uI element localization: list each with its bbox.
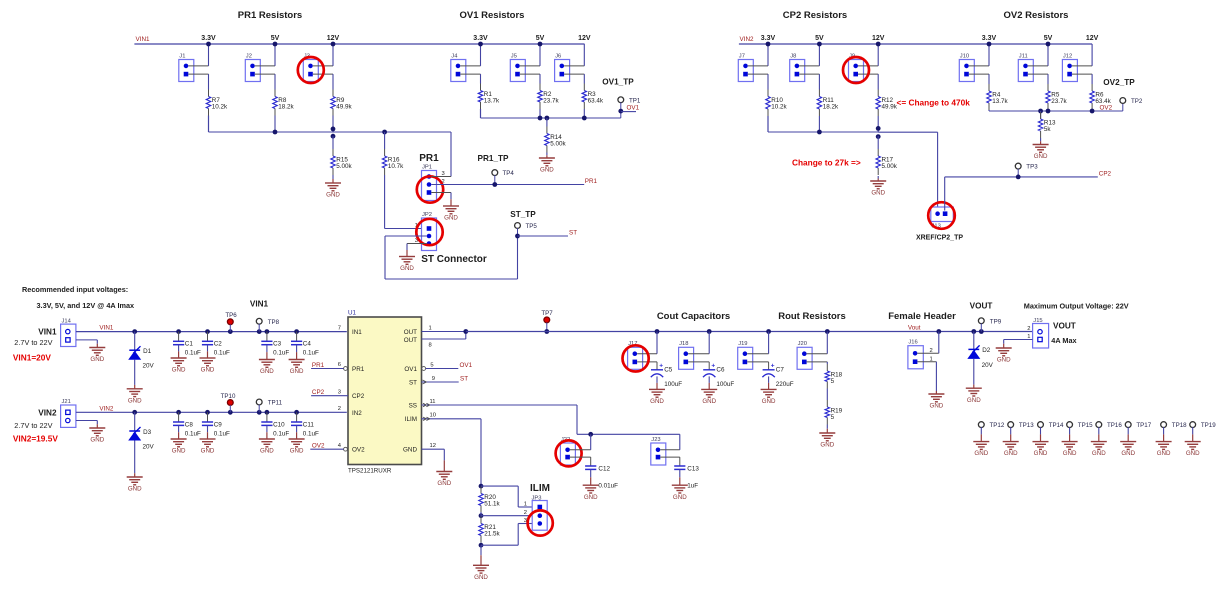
svg-text:PR1: PR1 <box>352 366 365 373</box>
ground below R15 <box>332 175 334 179</box>
svg-text:GND: GND <box>326 192 340 199</box>
wire <box>274 116 276 133</box>
svg-text:GND: GND <box>1034 450 1048 457</box>
svg-text:51.1k: 51.1k <box>484 501 500 508</box>
svg-text:C8: C8 <box>185 421 194 428</box>
svg-text:C1: C1 <box>185 341 194 348</box>
svg-text:21.5k: 21.5k <box>484 531 500 538</box>
ground below TP18 <box>1156 441 1172 443</box>
svg-text:GND: GND <box>90 437 104 444</box>
svg-text:JP2: JP2 <box>422 212 432 218</box>
wire J16 pin1 to ground <box>917 361 936 363</box>
svg-text:3.3V: 3.3V <box>473 35 488 42</box>
wire <box>1028 65 1048 67</box>
svg-text:8: 8 <box>429 343 432 349</box>
svg-text:9: 9 <box>432 376 435 382</box>
svg-text:Change to 27k =>: Change to 27k => <box>792 158 861 168</box>
ground below TP17 <box>1120 441 1136 443</box>
svg-text:OV1: OV1 <box>404 366 417 373</box>
capacitor C3 <box>266 332 268 342</box>
svg-text:TP14: TP14 <box>1049 422 1064 429</box>
svg-text:VIN1: VIN1 <box>38 328 57 337</box>
connector J13 XREF/CP2_TP <box>931 207 954 222</box>
svg-text:GND: GND <box>540 167 554 174</box>
svg-text:OV2: OV2 <box>352 447 365 454</box>
ground below C13 <box>672 484 688 486</box>
wire ST net <box>518 235 569 237</box>
wire <box>1047 110 1049 111</box>
svg-text:5.00k: 5.00k <box>550 141 566 148</box>
svg-text:TP3: TP3 <box>1026 164 1038 171</box>
svg-text:2: 2 <box>524 510 527 516</box>
red highlight circle on J9 <box>843 57 869 83</box>
svg-text:J19: J19 <box>738 341 747 347</box>
wire <box>826 389 828 401</box>
svg-text:J15: J15 <box>1033 318 1042 324</box>
svg-text:TP4: TP4 <box>503 170 515 177</box>
svg-text:J6: J6 <box>555 53 561 59</box>
wire <box>564 65 584 67</box>
capacitor C6 <box>703 369 715 371</box>
capacitor C9 <box>207 412 209 422</box>
test point TP15 <box>1067 422 1073 428</box>
svg-text:PR1 Resistors: PR1 Resistors <box>238 10 302 21</box>
svg-text:SS: SS <box>409 403 417 410</box>
wire <box>748 65 768 67</box>
capacitor C2 <box>207 332 209 342</box>
svg-text:C9: C9 <box>214 421 223 428</box>
svg-text:0.1uF: 0.1uF <box>214 350 230 357</box>
ground below C3 <box>259 359 275 361</box>
VIN2 rail (top) <box>739 43 1092 45</box>
ground at J15 <box>996 347 1012 349</box>
svg-text:J2: J2 <box>246 53 252 59</box>
wire J5 to resistor <box>539 74 541 83</box>
capacitor C4 <box>296 332 298 342</box>
svg-text:TP12: TP12 <box>990 422 1005 429</box>
svg-text:GND: GND <box>930 403 944 410</box>
resistor R19 <box>826 400 828 407</box>
wire to JP3 pin2 <box>481 515 532 517</box>
wire J14 pin2 to ground <box>76 339 97 341</box>
U1 OUT pin wires <box>422 331 466 333</box>
junction dots on VIN1 rail <box>132 329 137 334</box>
svg-text:5: 5 <box>831 378 835 385</box>
resistor R2 <box>539 84 541 91</box>
VIN1 rail (top) <box>134 43 584 45</box>
wire bus to J13 <box>878 131 937 133</box>
wire J13 pin2 to CP2 net <box>944 177 946 211</box>
svg-text:GND: GND <box>437 480 451 487</box>
svg-text:J18: J18 <box>679 341 688 347</box>
svg-text:D1: D1 <box>143 348 152 355</box>
svg-text:100uF: 100uF <box>716 381 734 388</box>
svg-text:10.2k: 10.2k <box>771 104 787 111</box>
svg-text:3.3V: 3.3V <box>201 35 216 42</box>
svg-text:C3: C3 <box>273 341 282 348</box>
svg-text:GND: GND <box>820 442 834 449</box>
svg-text:0.1uF: 0.1uF <box>185 350 201 357</box>
svg-text:GND: GND <box>1121 450 1135 457</box>
svg-text:ST: ST <box>569 230 577 237</box>
svg-text:C7: C7 <box>776 366 785 373</box>
svg-text:0.01uF: 0.01uF <box>598 483 618 490</box>
svg-text:VIN1: VIN1 <box>99 325 113 332</box>
svg-text:GND: GND <box>172 448 186 455</box>
svg-text:C12: C12 <box>598 465 610 472</box>
capacitor C5 <box>651 369 663 371</box>
wire J21 pin2 to ground <box>76 420 97 422</box>
wire J23 pin2 to C13 <box>660 456 680 458</box>
capacitor C7 <box>763 369 775 371</box>
svg-text:CP2: CP2 <box>352 393 365 400</box>
svg-text:J8: J8 <box>790 53 796 59</box>
svg-text:11: 11 <box>430 399 436 405</box>
svg-text:GND: GND <box>90 356 104 363</box>
svg-text:VIN2: VIN2 <box>740 36 754 43</box>
wire J12 to resistor <box>1091 74 1093 84</box>
svg-text:GND: GND <box>1157 450 1171 457</box>
svg-text:GND: GND <box>128 486 142 493</box>
ground below D2 <box>966 387 982 389</box>
wire J22 pin1 <box>570 449 591 451</box>
wire <box>583 109 585 118</box>
svg-text:IN2: IN2 <box>352 410 362 417</box>
svg-text:VIN2=19.5V: VIN2=19.5V <box>13 434 58 444</box>
ground below D1 <box>127 388 143 390</box>
capacitor C13 <box>674 465 685 467</box>
svg-text:TP9: TP9 <box>990 318 1002 325</box>
ground below R21 <box>473 564 489 566</box>
capacitor C8 <box>178 412 180 422</box>
ground below R17 <box>877 176 879 179</box>
resistor R21 <box>480 512 482 517</box>
svg-text:10.2k: 10.2k <box>212 104 228 111</box>
U1 ILIM pin wire <box>422 418 482 420</box>
wire J15 pin1 to ground <box>1004 339 1033 341</box>
svg-text:ST Connector: ST Connector <box>421 254 487 265</box>
svg-text:VIN1: VIN1 <box>136 36 150 43</box>
svg-text:J4: J4 <box>451 53 458 59</box>
resistor R17 <box>877 136 879 149</box>
svg-text:GND: GND <box>650 398 664 405</box>
resistor R16 <box>384 132 386 149</box>
svg-text:5: 5 <box>831 414 835 421</box>
svg-text:J16: J16 <box>908 340 917 346</box>
svg-text:OUT: OUT <box>404 329 417 336</box>
net label CP2 wire to U1 <box>311 395 348 397</box>
ground below R13 <box>1040 138 1042 141</box>
ground below TP16 <box>1091 441 1107 443</box>
junction dots on OUT rail <box>655 329 660 334</box>
svg-text:D3: D3 <box>143 429 152 436</box>
svg-text:5.00k: 5.00k <box>882 163 898 170</box>
wire J8 to resistor <box>818 74 820 89</box>
wire D1 to ground <box>134 360 136 381</box>
resistor R9 <box>332 90 334 97</box>
ground below C12 <box>583 484 599 486</box>
capacitor C11 <box>296 412 298 422</box>
svg-text:10: 10 <box>430 413 436 419</box>
svg-text:0.1uF: 0.1uF <box>273 430 289 437</box>
red highlight circle on J17 <box>623 345 649 371</box>
wire J11 to resistor <box>1047 74 1049 84</box>
wire R21 to ground <box>480 545 482 555</box>
wire D2 to ground <box>973 359 975 381</box>
svg-text:C11: C11 <box>303 421 315 428</box>
CP2 lower bus wire <box>767 116 769 132</box>
svg-text:TP10: TP10 <box>221 393 236 400</box>
svg-text:IN1: IN1 <box>352 329 362 336</box>
svg-text:20V: 20V <box>982 362 994 369</box>
svg-text:12V: 12V <box>872 35 885 42</box>
svg-text:GND: GND <box>260 368 274 375</box>
svg-text:OV1: OV1 <box>460 362 473 369</box>
svg-text:<= Change to 470k: <= Change to 470k <box>897 98 971 108</box>
svg-text:12V: 12V <box>1086 35 1099 42</box>
wire J2 to resistor <box>274 74 276 89</box>
svg-text:GND: GND <box>1034 153 1048 160</box>
junction dots <box>987 42 992 47</box>
svg-text:7: 7 <box>338 325 341 331</box>
svg-text:63.4k: 63.4k <box>588 98 604 105</box>
wire <box>818 116 820 132</box>
ground below D3 <box>127 476 143 478</box>
svg-text:3: 3 <box>338 389 341 395</box>
wire <box>460 65 480 67</box>
ground below R14 <box>546 153 548 156</box>
test point TP18 <box>1161 422 1167 428</box>
ground at J14 <box>89 347 105 349</box>
zener diode D2 <box>973 332 975 350</box>
svg-text:3.3V: 3.3V <box>982 35 997 42</box>
wire JP1 pin1 to ground <box>431 192 451 194</box>
ground below TP14 <box>1033 441 1049 443</box>
test point TP9 <box>978 318 984 324</box>
wire <box>988 110 990 111</box>
ground below C2 <box>200 357 216 359</box>
ground below C8 <box>171 438 187 440</box>
svg-text:12: 12 <box>430 443 436 449</box>
svg-text:GND: GND <box>1186 450 1200 457</box>
svg-text:23.7k: 23.7k <box>1051 98 1067 105</box>
wire <box>188 65 208 67</box>
svg-text:J21: J21 <box>62 399 71 405</box>
svg-text:GND: GND <box>997 357 1011 364</box>
svg-text:ST: ST <box>409 380 417 387</box>
resistor R18 <box>826 362 828 364</box>
svg-text:GND: GND <box>444 215 458 222</box>
svg-text:TP2: TP2 <box>1131 98 1143 105</box>
svg-text:C13: C13 <box>687 465 699 472</box>
test point TP13 <box>1008 422 1014 428</box>
red highlight circle on J13 <box>928 202 955 229</box>
ground at U1 <box>436 471 452 473</box>
resistor R13 <box>1040 111 1042 119</box>
svg-text:GND: GND <box>584 494 598 501</box>
svg-text:20V: 20V <box>143 363 155 370</box>
svg-text:VIN1: VIN1 <box>250 300 269 309</box>
svg-text:GND: GND <box>201 448 215 455</box>
red highlight circle on JP1 <box>417 176 443 202</box>
svg-text:CP2: CP2 <box>312 389 325 396</box>
wire J10 to resistor <box>988 74 990 84</box>
svg-text:PR1: PR1 <box>419 153 439 164</box>
svg-text:J1: J1 <box>179 53 185 59</box>
svg-text:TP5: TP5 <box>526 223 538 230</box>
svg-text:2.7V to 22V: 2.7V to 22V <box>14 338 52 347</box>
svg-text:GND: GND <box>1063 450 1077 457</box>
svg-text:GND: GND <box>260 448 274 455</box>
svg-text:13.7k: 13.7k <box>992 98 1008 105</box>
svg-text:XREF/CP2_TP: XREF/CP2_TP <box>916 235 963 242</box>
svg-text:GND: GND <box>702 398 716 405</box>
wire <box>799 65 819 67</box>
svg-text:12V: 12V <box>327 35 340 42</box>
resistor R1 <box>480 84 482 91</box>
svg-text:TP6: TP6 <box>225 312 237 319</box>
ground below TP12 <box>973 441 989 443</box>
wire <box>208 116 210 133</box>
PR1 lower bus wire <box>208 116 210 133</box>
svg-text:0.1uF: 0.1uF <box>214 430 230 437</box>
svg-text:Rout Resistors: Rout Resistors <box>778 311 846 322</box>
svg-text:VIN2: VIN2 <box>38 408 57 417</box>
svg-text:GND: GND <box>967 397 981 404</box>
wire <box>807 353 828 355</box>
net label OV2 wire to U1 <box>310 448 343 450</box>
svg-text:5k: 5k <box>1044 126 1052 133</box>
svg-text:GND: GND <box>400 265 414 272</box>
wire J6 to resistor <box>583 74 585 83</box>
svg-text:18.2k: 18.2k <box>278 104 294 111</box>
svg-text:2: 2 <box>338 406 341 412</box>
ground below JP2 <box>399 256 415 258</box>
svg-text:Maximum Output Voltage: 22V: Maximum Output Voltage: 22V <box>1024 302 1129 311</box>
wire <box>637 353 657 355</box>
wire JP1 pin3 <box>431 176 451 178</box>
capacitor C12 <box>585 465 596 467</box>
wire <box>480 109 482 118</box>
svg-text:OUT: OUT <box>404 337 417 344</box>
svg-text:GND: GND <box>128 397 142 404</box>
ground below C9 <box>200 438 216 440</box>
wire J16 pin2 to rail <box>917 352 938 354</box>
svg-text:2: 2 <box>1027 326 1030 332</box>
wire D3 to ground <box>134 441 136 470</box>
ground below C1 <box>171 357 187 359</box>
svg-text:TP17: TP17 <box>1136 422 1151 429</box>
VIN2 rail to U1 <box>76 411 347 413</box>
ground below C10 <box>259 438 275 440</box>
node between R20 R21 <box>479 513 484 518</box>
wire JP2 pin2 loop to ST test point <box>385 235 427 237</box>
svg-text:CP2 Resistors: CP2 Resistors <box>783 10 847 21</box>
svg-text:GND: GND <box>1004 450 1018 457</box>
node below R21 <box>479 543 484 548</box>
wire J7 to resistor <box>767 74 769 89</box>
svg-text:TPS2121RUXR: TPS2121RUXR <box>348 468 392 475</box>
svg-text:ST_TP: ST_TP <box>510 210 536 219</box>
wire J4 to resistor <box>480 74 482 83</box>
ground below C7 <box>761 388 777 390</box>
svg-text:GND: GND <box>1092 450 1106 457</box>
svg-text:3.3V: 3.3V <box>761 35 776 42</box>
U1 GND pin wire <box>422 448 445 450</box>
test point TP12 <box>978 422 984 428</box>
wire <box>969 65 989 67</box>
resistor R10 <box>767 90 769 97</box>
resistor R6 <box>1091 84 1093 91</box>
svg-text:GND: GND <box>290 448 304 455</box>
svg-text:TP7: TP7 <box>541 310 553 317</box>
red highlight circle on J22 <box>556 440 582 466</box>
ground below C4 <box>289 359 305 361</box>
svg-text:J7: J7 <box>739 53 745 59</box>
svg-text:+: + <box>771 363 775 370</box>
zener diode D1 <box>134 332 136 351</box>
svg-text:C6: C6 <box>716 366 725 373</box>
svg-text:VOUT: VOUT <box>1053 321 1076 330</box>
junction dots on VIN2 rail <box>132 410 137 415</box>
svg-text:PR1: PR1 <box>312 362 325 369</box>
wire bus down to JP1 pin3 <box>450 132 452 177</box>
svg-text:Recommended input voltages:: Recommended input voltages: <box>22 285 128 294</box>
svg-text:23.7k: 23.7k <box>543 98 559 105</box>
svg-text:18.2k: 18.2k <box>823 104 839 111</box>
OV1 lower bus wire <box>480 109 482 118</box>
svg-text:100uF: 100uF <box>664 381 682 388</box>
resistor R4 <box>988 84 990 91</box>
svg-text:12V: 12V <box>578 35 591 42</box>
svg-text:0.1uF: 0.1uF <box>273 350 289 357</box>
svg-text:GND: GND <box>871 190 885 197</box>
svg-text:JP1: JP1 <box>422 165 432 171</box>
resistor R15 <box>332 136 334 149</box>
svg-text:TP8: TP8 <box>268 319 280 326</box>
U1 pin circles on left <box>344 367 348 371</box>
wire <box>747 353 768 355</box>
wire <box>539 109 541 118</box>
svg-text:C5: C5 <box>664 366 673 373</box>
ground below C11 <box>289 438 305 440</box>
svg-text:OV1_TP: OV1_TP <box>602 78 634 87</box>
junction dots on VIN1 rail <box>206 42 211 47</box>
svg-text:CP2: CP2 <box>1099 170 1112 177</box>
svg-text:13.7k: 13.7k <box>484 98 500 105</box>
wire J22 pin2 to C12 <box>570 456 591 458</box>
resistor R12 <box>877 90 879 97</box>
svg-text:0.1uF: 0.1uF <box>303 350 319 357</box>
ground below C6 <box>701 388 717 390</box>
wire <box>877 116 879 132</box>
svg-text:VIN2: VIN2 <box>99 405 113 412</box>
svg-text:J12: J12 <box>1063 53 1072 59</box>
svg-text:TP18: TP18 <box>1172 422 1187 429</box>
svg-text:U1: U1 <box>348 310 357 317</box>
resistor R5 <box>1047 84 1049 91</box>
svg-text:Female Header: Female Header <box>888 311 956 322</box>
test point TP16 <box>1096 422 1102 428</box>
VIN1 rail to U1 <box>76 331 347 333</box>
ground below TP13 <box>1003 441 1019 443</box>
svg-text:Cout Capacitors: Cout Capacitors <box>657 311 730 322</box>
wire J3 to resistor <box>332 74 334 89</box>
svg-text:J11: J11 <box>1019 53 1028 59</box>
wire <box>1072 65 1092 67</box>
svg-text:5.00k: 5.00k <box>336 163 352 170</box>
svg-text:C4: C4 <box>303 341 312 348</box>
